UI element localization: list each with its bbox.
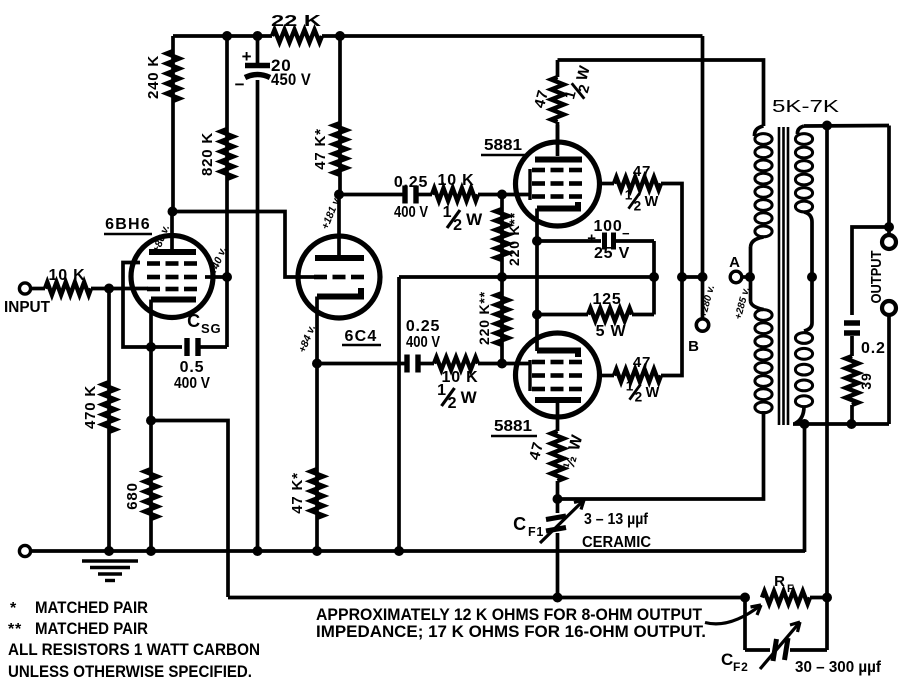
svg-text:**: ** — [8, 621, 22, 638]
svg-text:1: 1 — [625, 187, 633, 202]
svg-text:39: 39 — [858, 372, 874, 389]
svg-text:10 K: 10 K — [442, 369, 479, 386]
svg-text:0.25: 0.25 — [394, 174, 428, 191]
svg-text:1: 1 — [443, 204, 453, 221]
svg-text:MATCHED PAIR: MATCHED PAIR — [35, 598, 148, 617]
svg-text:2: 2 — [634, 198, 642, 213]
svg-text:W: W — [461, 388, 478, 407]
svg-text:F2: F2 — [733, 660, 749, 674]
svg-text:A: A — [729, 254, 741, 271]
svg-text:6C4: 6C4 — [345, 328, 378, 345]
svg-text:47: 47 — [633, 163, 651, 180]
svg-text:125: 125 — [592, 291, 621, 308]
svg-text:IMPEDANCE; 17 K OHMS FOR 16-O: IMPEDANCE; 17 K OHMS FOR 16-OHM OUTPUT. — [316, 623, 706, 641]
svg-text:2: 2 — [453, 217, 463, 234]
svg-text:220 K**: 220 K** — [476, 291, 492, 345]
svg-text:30 – 300 µµf: 30 – 300 µµf — [795, 659, 882, 676]
svg-text:OUTPUT: OUTPUT — [868, 251, 885, 304]
svg-text:SG: SG — [201, 321, 221, 336]
svg-text:C: C — [187, 311, 201, 331]
svg-text:CERAMIC: CERAMIC — [582, 534, 651, 551]
svg-text:220 K**: 220 K** — [506, 212, 522, 266]
svg-text:47 K*: 47 K* — [312, 128, 329, 170]
svg-text:0.25: 0.25 — [406, 318, 440, 335]
svg-text:INPUT: INPUT — [4, 299, 51, 316]
svg-text:22 K: 22 K — [271, 13, 322, 30]
svg-text:W: W — [466, 210, 483, 229]
svg-text:APPROXIMATELY 12 K OHMS FOR 8-: APPROXIMATELY 12 K OHMS FOR 8-OHM OUTPUT — [316, 606, 702, 624]
svg-text:100: 100 — [593, 218, 622, 235]
svg-text:0.5: 0.5 — [180, 359, 205, 376]
svg-text:470 K: 470 K — [82, 385, 99, 429]
svg-text:F1: F1 — [528, 525, 544, 539]
svg-text:MATCHED PAIR: MATCHED PAIR — [35, 619, 148, 638]
svg-text:240 K: 240 K — [145, 55, 162, 99]
svg-text:+: + — [242, 47, 253, 66]
svg-text:400 V: 400 V — [406, 334, 440, 351]
svg-text:3 – 13 µµf: 3 – 13 µµf — [584, 511, 649, 528]
svg-text:5881: 5881 — [484, 137, 522, 154]
svg-text:5881: 5881 — [494, 418, 532, 435]
svg-text:W: W — [646, 385, 660, 401]
svg-text:*: * — [10, 600, 17, 617]
svg-text:B: B — [688, 338, 700, 355]
svg-text:−: − — [235, 75, 246, 94]
svg-text:1: 1 — [437, 382, 447, 399]
svg-text:F: F — [787, 583, 795, 595]
svg-text:10 K: 10 K — [438, 172, 475, 189]
svg-text:W: W — [645, 194, 659, 210]
svg-text:2: 2 — [448, 395, 458, 412]
svg-text:6BH6: 6BH6 — [105, 216, 151, 233]
svg-text:−: − — [622, 226, 630, 241]
svg-text:C: C — [513, 514, 527, 534]
svg-text:5K-7K: 5K-7K — [772, 96, 839, 116]
svg-text:ALL RESISTORS 1 WATT CARBON: ALL RESISTORS 1 WATT CARBON — [8, 640, 260, 659]
svg-text:R: R — [774, 573, 786, 590]
svg-text:450 V: 450 V — [271, 70, 311, 89]
svg-text:5 W: 5 W — [596, 323, 627, 340]
svg-text:10 K: 10 K — [49, 267, 86, 284]
svg-text:820 K: 820 K — [199, 132, 216, 176]
svg-text:47: 47 — [633, 354, 651, 371]
svg-text:UNLESS OTHERWISE SPECIFIED.: UNLESS OTHERWISE SPECIFIED. — [8, 662, 252, 681]
svg-text:400 V: 400 V — [394, 204, 428, 221]
svg-text:1: 1 — [626, 378, 634, 393]
svg-text:47 K*: 47 K* — [289, 472, 306, 514]
svg-text:0.2: 0.2 — [861, 340, 886, 357]
svg-text:400 V: 400 V — [174, 375, 210, 392]
svg-text:680: 680 — [124, 482, 141, 509]
svg-text:2: 2 — [635, 389, 643, 404]
svg-text:25 V: 25 V — [594, 245, 630, 262]
